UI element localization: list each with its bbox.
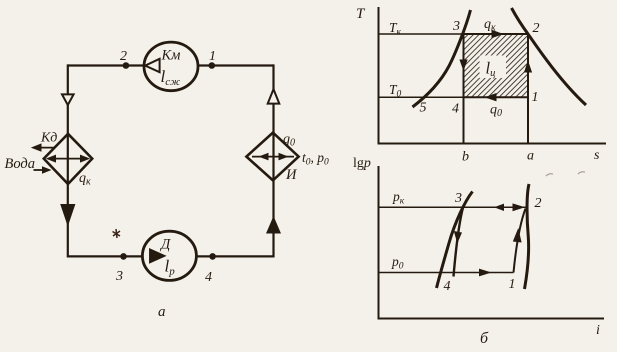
svg-text:2: 2 [535, 196, 542, 211]
svg-text:b: b [462, 150, 469, 165]
scan specks [546, 174, 553, 176]
throttle D [142, 231, 196, 280]
svg-text:1: 1 [532, 90, 539, 105]
water out arrow [37, 147, 54, 149]
arrow up on 1-2 [513, 228, 522, 243]
arrow right into 2 [513, 203, 526, 211]
arrow left on 2-3 [494, 204, 504, 211]
line 1-2 [514, 209, 526, 273]
svg-text:1: 1 [209, 49, 216, 64]
svg-text:2: 2 [120, 49, 127, 64]
s axis [378, 143, 607, 145]
svg-text:4: 4 [444, 279, 451, 294]
dome left branch (lgp) [437, 192, 473, 289]
line a vertical 2-1 [527, 34, 529, 144]
flow arrow filled, left wire down [60, 204, 75, 227]
svg-text:а: а [158, 304, 166, 320]
l_c label box [480, 56, 507, 79]
svg-text:3: 3 [454, 191, 462, 206]
dome right branch (lgp) [525, 184, 530, 289]
arrow up on 1-2 [524, 61, 532, 73]
inner double arrow [49, 158, 87, 160]
svg-text:а: а [527, 149, 534, 164]
flow arrow open, right wire up [268, 89, 280, 103]
flow arrow open, left wire down [62, 94, 74, 105]
arrow down on 3-4 [459, 60, 467, 72]
svg-text:Км: Км [161, 48, 181, 64]
hatched cycle area [464, 34, 529, 97]
speck asterisk [113, 229, 121, 238]
svg-text:И: И [285, 167, 298, 183]
water in arrow [34, 169, 46, 171]
node 4 [209, 253, 216, 260]
svg-text:2: 2 [533, 21, 540, 36]
Tk isotherm [379, 33, 464, 35]
wire left [67, 64, 69, 257]
node 3 [120, 253, 127, 260]
svg-text:б: б [480, 330, 489, 347]
condenser Kd (diamond) [5, 131, 93, 188]
evaporator I (diamond) [246, 132, 329, 183]
svg-text:Кд: Кд [40, 131, 57, 146]
top edge 3-2 [464, 33, 529, 35]
svg-text:Вода: Вода [5, 156, 36, 172]
svg-text:s: s [594, 148, 600, 163]
T0 isotherm [379, 96, 464, 98]
node 2 [123, 62, 130, 69]
dome right branch (T-s) [512, 8, 587, 105]
arrow right on 4-1 [479, 269, 492, 277]
pk isobar [379, 206, 527, 208]
svg-text:4: 4 [452, 102, 459, 117]
svg-text:lgp: lgp [353, 156, 371, 171]
bottom edge 4-1 [464, 96, 529, 98]
svg-text:5: 5 [420, 101, 427, 116]
svg-text:3: 3 [115, 269, 123, 284]
svg-text:3: 3 [452, 19, 460, 34]
lgp axis [378, 166, 380, 319]
arrow down on 3-4 [454, 231, 462, 244]
i axis [378, 318, 605, 320]
compressor Km [144, 42, 198, 91]
p0 isobar [379, 272, 514, 274]
dome left branch (T-s) [413, 10, 471, 107]
wire bottom [68, 255, 274, 257]
svg-text:Д: Д [159, 237, 171, 253]
wire right [272, 64, 274, 257]
line 3-4 [454, 208, 464, 277]
line b vertical 3-4 [463, 34, 465, 144]
svg-text:i: i [596, 323, 600, 338]
flow arrow filled, right wire up [266, 216, 281, 234]
T axis [378, 7, 380, 144]
node 1 [209, 62, 216, 69]
arrow right on 3-2 [492, 30, 504, 38]
svg-text:4: 4 [205, 270, 212, 285]
svg-text:1: 1 [509, 277, 516, 292]
wire top [68, 64, 274, 66]
arrow left on 4-1 [485, 93, 497, 101]
